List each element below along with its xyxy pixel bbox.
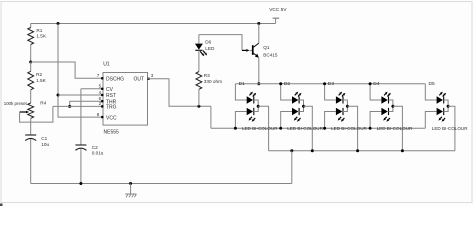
node D3 top rail junction: [323, 82, 326, 85]
ground symbol: [125, 184, 136, 198]
LED D1 bi-colour: [235, 81, 278, 151]
svg-text:VCC 5V: VCC 5V: [269, 7, 287, 13]
LED D3 bi-colour: [325, 81, 368, 151]
svg-text:CV: CV: [106, 87, 114, 93]
svg-text:1.5K: 1.5K: [36, 78, 47, 83]
svg-text:RST: RST: [106, 93, 116, 99]
capacitor C1: [25, 135, 49, 184]
wire D4 anode connections to rails: [370, 84, 381, 100]
resistor R3: [196, 72, 222, 107]
wire LED top rail: [235, 83, 425, 85]
wire cathode bus: [269, 150, 455, 152]
node RST junction on VCC branch: [57, 94, 60, 97]
node VCC rail junction to Q1 collector: [257, 22, 260, 25]
pin 2 TRG pad and number: [101, 105, 103, 107]
transistor Q1 BC415: [242, 43, 278, 58]
LED D4 upper diode: [381, 96, 387, 103]
LED D4 bi-colour: [370, 81, 413, 151]
LED D2 lower diode: [292, 108, 298, 115]
svg-text:D1: D1: [239, 81, 246, 87]
wire OUT drop to LED bottom rail: [210, 106, 212, 128]
LED D5 lower diode: [437, 108, 443, 115]
wire DSCHG net (junction to pin 7): [31, 62, 103, 78]
svg-text:TRG: TRG: [106, 105, 117, 111]
svg-text:R3: R3: [204, 73, 210, 78]
svg-text:100k preset: 100k preset: [4, 101, 28, 106]
node D2 top rail junction: [279, 82, 282, 85]
wire Q1 emitter to LED rail: [258, 58, 260, 84]
LED D6: [195, 35, 215, 72]
svg-text:R1: R1: [36, 28, 42, 33]
wire preset wiper to TRG net: [20, 106, 53, 122]
LED D2 bi-colour: [281, 81, 324, 151]
wire CV net vertical lead to C2: [80, 89, 82, 145]
svg-text:LED BI-COLOUR: LED BI-COLOUR: [287, 126, 323, 131]
svg-text:C2: C2: [92, 145, 98, 150]
svg-text:0.01u: 0.01u: [92, 151, 104, 156]
node THR/TRG junction: [68, 105, 71, 108]
wire D5 anode connections to rails: [425, 84, 436, 100]
pin 6 THR pad and number: [101, 100, 103, 102]
wire RST net (pin 4): [58, 94, 103, 96]
svg-text:R2: R2: [36, 72, 42, 77]
IC U1 NE555 timer: [97, 62, 154, 136]
node D3 bottom rail junction: [323, 127, 326, 130]
node D4 top rail junction: [369, 82, 372, 85]
svg-text:LED BI-COLOUR: LED BI-COLOUR: [331, 126, 367, 131]
wire D5 common cathode join and drop to bus: [444, 100, 448, 112]
svg-text:BC415: BC415: [263, 52, 278, 57]
pin 5 CV pad and number: [101, 88, 103, 90]
LED D3 upper diode: [336, 96, 342, 103]
resistor R1: [28, 24, 47, 63]
pin 8 VCC pad and number: [101, 116, 103, 118]
svg-text:D2: D2: [284, 81, 291, 87]
svg-text:D5: D5: [429, 81, 436, 87]
node D4 cathode drop junction on bus: [401, 149, 404, 152]
node D2 bottom rail junction: [279, 127, 282, 130]
svg-text:LED: LED: [205, 46, 215, 51]
wire D4 common cathode join and drop to bus: [389, 100, 393, 112]
wire D2 anode connections to rails: [281, 84, 292, 100]
wire OUT net from pin 3: [148, 79, 211, 106]
wire D3 common cathode join and drop to bus: [343, 100, 347, 112]
svg-text:NE555: NE555: [104, 129, 120, 135]
svg-text:DSCHG: DSCHG: [106, 77, 124, 83]
node VCC rail junction to RST/VCC branch: [57, 22, 60, 25]
node ground symbol junction: [129, 182, 132, 185]
LED D5 bi-colour: [425, 81, 468, 151]
resistor R2: [28, 62, 47, 103]
wire CV net (pin 5): [81, 88, 103, 90]
svg-text:Q1: Q1: [263, 45, 270, 50]
svg-text:LED BI-COLOUR: LED BI-COLOUR: [432, 126, 468, 131]
wire VCC branch down to pin 8: [58, 24, 103, 118]
corner speck: [0, 204, 3, 207]
ground rail: [31, 183, 292, 185]
wire D6 anode to Q1 base: [199, 35, 242, 51]
node D4 bottom rail junction: [369, 127, 372, 130]
wire LED bottom rail: [211, 127, 425, 129]
IC U1 body outline: [103, 73, 148, 126]
node D1 bottom rail junction: [234, 127, 237, 130]
node D2 cathode drop junction on bus: [311, 149, 314, 152]
wire D2 common cathode join and drop to bus: [299, 100, 303, 112]
svg-text:D3: D3: [328, 81, 335, 87]
pin 4 RST pad and number: [101, 94, 103, 96]
node D3 cathode drop junction on bus: [356, 149, 359, 152]
svg-text:VCC: VCC: [106, 115, 117, 121]
wire D1 common cathode join and drop to bus: [254, 100, 258, 112]
svg-text:U1: U1: [103, 62, 110, 68]
wire TRG net (pin 2): [53, 105, 103, 107]
svg-text:LED BI-COLOUR: LED BI-COLOUR: [242, 126, 278, 131]
svg-text:10u: 10u: [41, 142, 49, 147]
LED D3 lower diode: [336, 108, 342, 115]
capacitor C2: [75, 145, 103, 184]
LED D2 upper diode: [292, 96, 298, 103]
node junction R1/R2/DSCHG: [29, 61, 32, 64]
LED D1 upper diode: [247, 96, 253, 103]
wire D1 anode connections to rails: [235, 84, 246, 100]
pin 7 DSCHG pad and number: [101, 77, 103, 79]
LED D5 upper diode: [437, 96, 443, 103]
node Q1 emitter junction on LED top rail: [257, 82, 260, 85]
node ground drop junction on bus: [290, 149, 293, 152]
pin 3 OUT pad and number: [147, 78, 149, 80]
svg-text:D4: D4: [373, 81, 380, 87]
node C2 to ground rail: [79, 182, 82, 185]
wire Q1 collector to VCC: [258, 24, 260, 44]
LED D4 lower diode: [381, 108, 387, 115]
wire D3 anode connections to rails: [325, 84, 336, 100]
wire bus to ground rail: [291, 151, 293, 184]
LED D1 lower diode: [247, 108, 253, 115]
svg-text:C1: C1: [41, 136, 47, 141]
svg-text:1.5K: 1.5K: [36, 34, 47, 39]
svg-text:OUT: OUT: [133, 77, 144, 83]
wire VCC top rail: [31, 23, 276, 25]
power VCC 5V symbol: [269, 7, 287, 24]
resistor R4 100k preset: [4, 101, 47, 135]
node R3 to OUT junction: [197, 105, 200, 108]
svg-text:R4: R4: [40, 101, 46, 106]
svg-text:330 ohm: 330 ohm: [204, 79, 222, 84]
svg-text:D6: D6: [205, 40, 211, 45]
svg-text:LED BI-COLOUR: LED BI-COLOUR: [377, 126, 413, 131]
wire THR net (pin 6): [70, 101, 103, 106]
